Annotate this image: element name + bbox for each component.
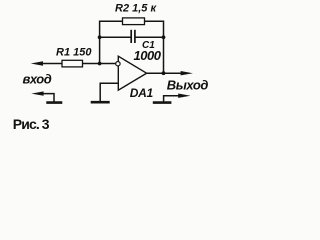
ground: non-inverting input <box>91 101 110 104</box>
svg-text:Рис. 3: Рис. 3 <box>13 116 50 132</box>
wire left feedback rail <box>100 21 164 73</box>
inversion bubble <box>116 62 120 66</box>
node: R1 / feedback junction <box>98 62 102 66</box>
wire C1 branch <box>100 36 131 38</box>
wire input to R1 <box>41 63 62 65</box>
node: C1 left junction <box>98 35 102 39</box>
node: output junction <box>162 71 166 75</box>
wire C1 branch right <box>135 36 164 38</box>
node: C1 right junction <box>162 35 166 39</box>
resistor R2 <box>123 18 145 25</box>
arrow output (right) <box>181 71 193 75</box>
arrow input (left) <box>31 61 43 65</box>
ground: output <box>153 101 172 104</box>
svg-text:R1 150: R1 150 <box>56 47 92 59</box>
arrow input ground (left) <box>31 91 43 95</box>
svg-text:R2 1,5 к: R2 1,5 к <box>115 2 157 14</box>
wire input ground arm <box>41 94 54 102</box>
svg-text:DA1: DA1 <box>130 86 154 100</box>
resistor R1 <box>62 60 83 67</box>
svg-text:1000: 1000 <box>134 48 162 63</box>
wire op-amp output <box>147 72 184 74</box>
capacitor C1 <box>131 30 135 43</box>
svg-text:вход: вход <box>23 72 52 87</box>
wire non-inverting input <box>100 83 118 101</box>
ground: input <box>46 101 62 104</box>
wire output ground arm <box>164 96 181 102</box>
wire R1 to op-amp inverting input <box>83 63 116 65</box>
arrow output ground (right) <box>178 94 190 98</box>
svg-text:Выход: Выход <box>167 77 209 92</box>
op-amp DA1 <box>118 56 146 90</box>
